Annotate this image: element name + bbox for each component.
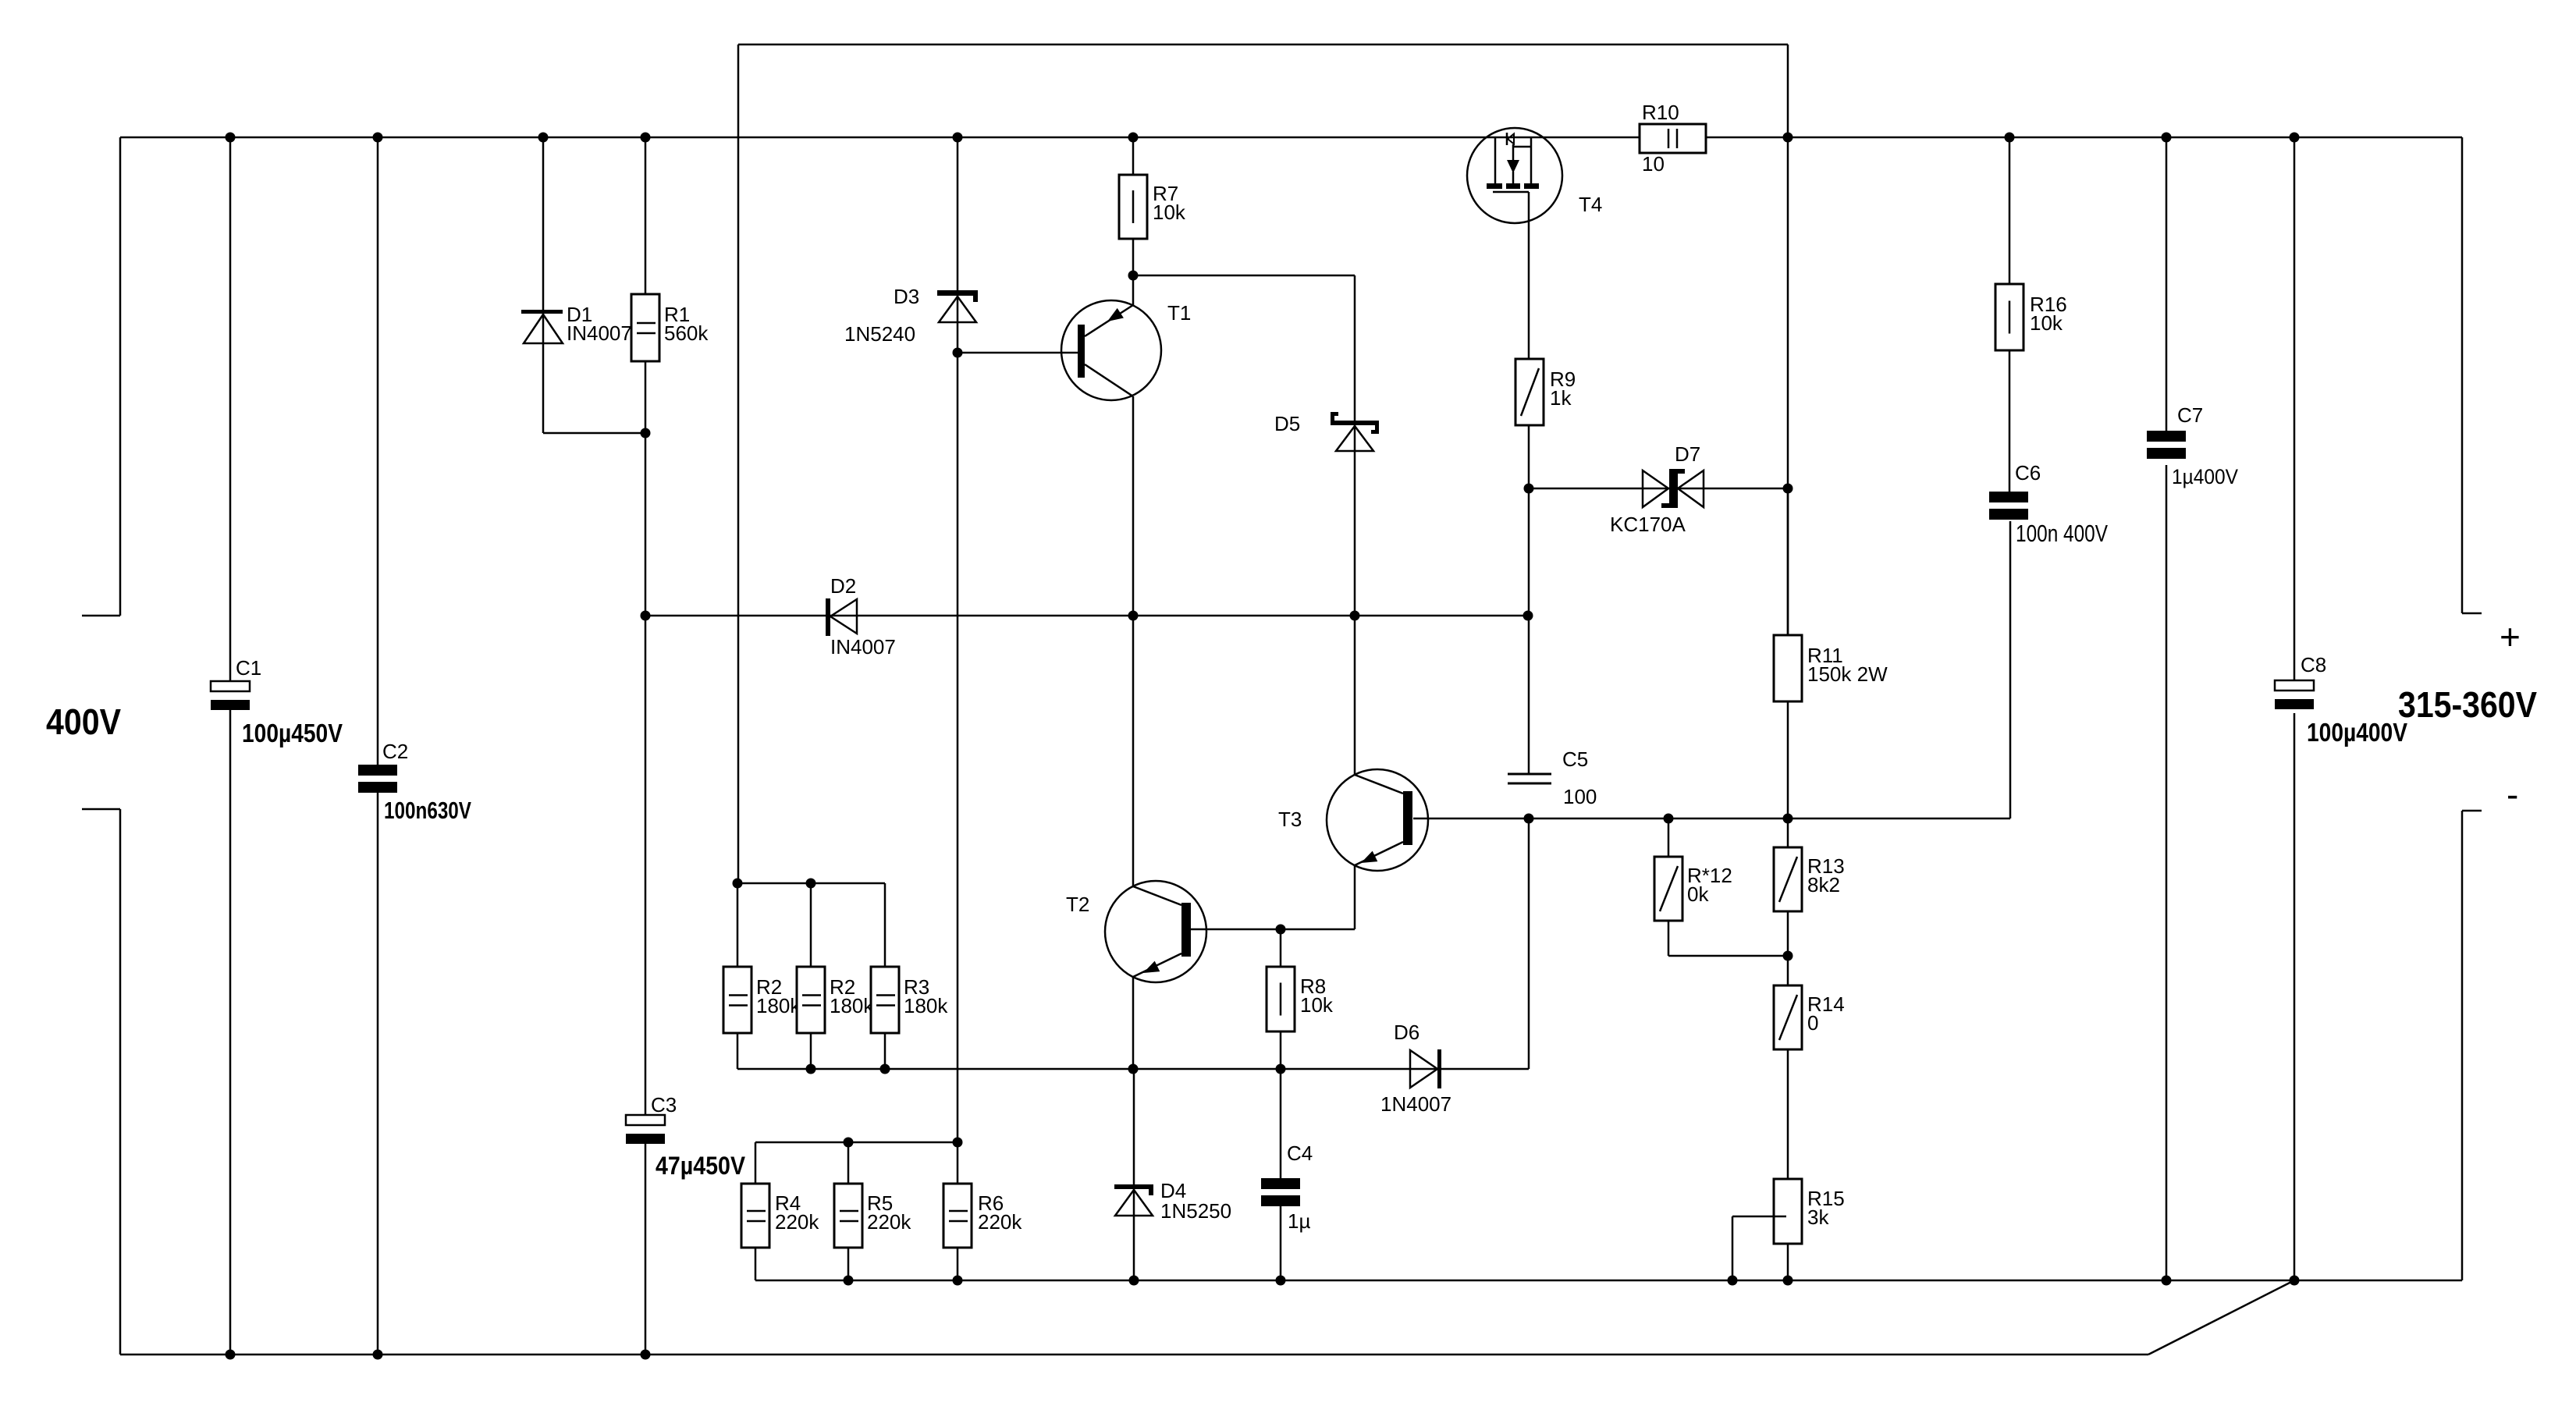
node C8 bottom diagonal: [2290, 1276, 2300, 1286]
svg-text:100n630V: 100n630V: [384, 797, 471, 824]
svg-text:560k: 560k: [664, 321, 709, 345]
capacitor C2 plates: [358, 765, 397, 793]
wire: R15 wiper down lead: [1732, 1216, 1734, 1280]
wire: R12 top lead: [1668, 818, 1670, 857]
wire: T1 base wire: [958, 352, 1078, 354]
capacitor C7 plates: [2147, 431, 2186, 459]
wire: C3 bottom lead: [645, 1142, 647, 1355]
resistor R4: [741, 1184, 769, 1248]
svg-text:T4: T4: [1579, 193, 1602, 216]
capacitor C4 plates: [1261, 1178, 1300, 1206]
wire: R5 bottom lead: [847, 1248, 850, 1280]
wire: +400V top bus: [120, 137, 2462, 139]
wire: C7 bottom lead: [2166, 465, 2168, 1280]
transistor T3: [1327, 769, 1428, 871]
node R5 top: [844, 1138, 854, 1148]
svg-text:10: 10: [1642, 152, 1665, 176]
zener D4 symbol: [1114, 1184, 1153, 1216]
wire: D4 column: [1133, 1069, 1135, 1280]
wire: R16 to C6 lead: [2009, 350, 2011, 492]
svg-text:1N4007: 1N4007: [1380, 1092, 1451, 1116]
diode D2: [826, 598, 857, 636]
svg-text:C7: C7: [2177, 403, 2203, 427]
resistor R15 (trimmer): [1774, 1179, 1802, 1244]
wire: feedback right vertical / D7-R11 column: [1787, 44, 1789, 635]
wire: R12 to R13 R14 node: [1668, 955, 1788, 957]
svg-text:100: 100: [1563, 785, 1597, 808]
node R2b bottom: [806, 1064, 816, 1074]
wire: right edge upper: [2461, 137, 2464, 613]
wire: C2 bottom lead: [377, 791, 379, 1355]
wire: D3 column to R6 bus: [957, 137, 959, 1142]
wire: T4 source stub: [1530, 137, 1533, 183]
zener D3 symbol: [937, 290, 978, 322]
wire: R7 bottom lead to T1 emitter: [1132, 239, 1135, 305]
node R16 top: [2005, 133, 2015, 143]
wire: C2 top lead: [377, 137, 379, 765]
capacitor C6 plates: [1989, 492, 2028, 520]
node D1 top: [538, 133, 549, 143]
wire: R9 bottom lead: [1528, 425, 1530, 488]
svg-text:C5: C5: [1562, 747, 1588, 771]
node C2 bottom: [373, 1350, 383, 1360]
svg-text:KC170A: KC170A: [1610, 513, 1686, 536]
wire: output - terminal stub: [2462, 810, 2482, 812]
node C7 top: [2162, 133, 2172, 143]
wire: T2 base to T3 emitter link: [1191, 928, 1355, 931]
node T2 emitter: [1128, 1064, 1139, 1074]
svg-text:1µ400V: 1µ400V: [2172, 465, 2238, 488]
wire: R3 bottom lead: [884, 1033, 886, 1069]
node D3 T1 base: [953, 348, 963, 358]
wire: R9 to C5 column: [1528, 488, 1530, 773]
svg-text:D6: D6: [1394, 1021, 1419, 1044]
svg-text:220k: 220k: [867, 1210, 911, 1234]
wire: feedback left vertical to R2 top bus: [737, 44, 740, 883]
wire: R5 top lead: [847, 1142, 850, 1184]
wire: bottom bus: [120, 1354, 2148, 1356]
svg-text:D7: D7: [1675, 442, 1700, 466]
wire: right edge lower: [2461, 811, 2464, 1280]
node R12 top: [1664, 814, 1674, 824]
wire: T2 emitter down lead: [1132, 977, 1135, 1069]
wire: R11 bottom to R13 top: [1787, 701, 1789, 847]
wire: bottom bus diagonal to lower bus: [2148, 1280, 2294, 1355]
svg-text:IN4007: IN4007: [567, 321, 632, 345]
resistor R2b: [797, 967, 825, 1033]
wire: T4 to R9 lead: [1528, 192, 1530, 359]
wire: R2 R3 top bus: [737, 882, 885, 885]
svg-text:3k: 3k: [1807, 1205, 1829, 1229]
svg-text:-: -: [2507, 774, 2518, 815]
node C1 bottom: [226, 1350, 236, 1360]
wire: R2a bottom lead: [737, 1033, 739, 1069]
wire: R4 top lead: [755, 1142, 757, 1184]
svg-text:220k: 220k: [775, 1210, 819, 1234]
wire: 400V - terminal stub: [82, 808, 120, 811]
resistor R7: [1119, 175, 1147, 239]
capacitor C3 plates: [626, 1115, 665, 1144]
svg-text:T1: T1: [1167, 301, 1191, 325]
wire: T3 emitter down lead: [1354, 865, 1356, 929]
node R7 top: [1128, 133, 1139, 143]
wire: R2b bottom lead: [810, 1033, 812, 1069]
wire: D2 node line: [645, 615, 1528, 617]
node C2 top: [373, 133, 383, 143]
node D3 top: [953, 133, 963, 143]
svg-text:180k: 180k: [756, 994, 801, 1017]
resistor R14: [1774, 985, 1802, 1049]
wire: C7 top lead: [2166, 137, 2168, 431]
node R6 bottom: [953, 1276, 963, 1286]
svg-text:8k2: 8k2: [1807, 873, 1840, 897]
node R8 bottom: [1276, 1064, 1286, 1074]
wire: T3 base node line: [1413, 818, 2010, 820]
node R15 wiper bottom: [1728, 1276, 1738, 1286]
svg-text:C3: C3: [651, 1093, 677, 1117]
wire: D5 column to T3 collector: [1354, 275, 1356, 775]
capacitor C1 plates: [211, 681, 250, 710]
node R15 bottom: [1783, 1276, 1793, 1286]
node D5 D2: [1350, 611, 1360, 621]
svg-text:D5: D5: [1274, 412, 1300, 435]
wire: R16 top lead: [2009, 137, 2011, 284]
transistor T2: [1105, 881, 1206, 982]
node D7 right: [1783, 484, 1793, 494]
wire: R15 bottom lead: [1787, 1244, 1789, 1280]
wire: R4 bottom lead: [755, 1248, 757, 1280]
node R2b top: [806, 879, 816, 889]
node R9 D7: [1524, 484, 1534, 494]
svg-text:D2: D2: [830, 574, 856, 598]
wire: C1 top lead: [229, 137, 232, 681]
resistor R1: [631, 294, 659, 361]
resistor R12: [1654, 857, 1682, 921]
diode D6: [1410, 1049, 1441, 1088]
wire: top feedback line: [738, 44, 1788, 46]
resistor R5: [834, 1184, 862, 1248]
svg-text:C8: C8: [2301, 653, 2326, 676]
node R2a top: [733, 879, 743, 889]
wire: R3 top lead: [884, 883, 886, 967]
node R8 top T2 base: [1276, 925, 1286, 935]
wire: lower node bus through D6: [737, 1068, 1529, 1070]
svg-text:C1: C1: [236, 656, 261, 680]
svg-text:10k: 10k: [2030, 311, 2063, 335]
wire: R2b top lead: [810, 883, 812, 967]
wire: R11 top lead: [1787, 488, 1789, 635]
wire: R7 top lead: [1132, 137, 1135, 175]
resistor R6: [943, 1184, 972, 1248]
wire: R1 top lead: [645, 137, 647, 294]
node D4 bottom: [1129, 1276, 1139, 1286]
wire: C1 bottom lead: [229, 710, 232, 1355]
node C1 top: [226, 133, 236, 143]
capacitor C8 plates: [2275, 680, 2314, 709]
svg-text:100µ400V: 100µ400V: [2307, 718, 2407, 747]
node R6 top: [953, 1138, 963, 1148]
node D1 R1 bottom: [641, 428, 651, 438]
node R5 bottom: [844, 1276, 854, 1286]
svg-text:C6: C6: [2015, 461, 2041, 485]
svg-text:400V: 400V: [46, 701, 121, 742]
svg-text:D3: D3: [894, 285, 919, 308]
wire: R8 bottom lead: [1280, 1031, 1282, 1069]
resistor R13: [1774, 847, 1802, 911]
wire: left edge upper: [119, 137, 122, 616]
wire: output minus bus: [755, 1280, 2462, 1282]
wire: D1 lead: [542, 137, 545, 433]
svg-text:47µ450V: 47µ450V: [656, 1152, 746, 1180]
svg-text:0k: 0k: [1687, 882, 1709, 906]
wire: 400V + terminal stub: [82, 615, 120, 617]
svg-text:100µ450V: 100µ450V: [242, 719, 343, 747]
svg-text:10k: 10k: [1300, 993, 1334, 1017]
wire: R12 bottom lead: [1668, 921, 1670, 956]
svg-text:180k: 180k: [904, 994, 948, 1017]
resistor R16: [1995, 284, 2023, 350]
svg-text:220k: 220k: [978, 1210, 1022, 1234]
wire: C8 bottom lead: [2294, 713, 2296, 1280]
node D2 left: [641, 611, 651, 621]
wire: R15 wiper horizontal: [1732, 1216, 1783, 1218]
wire: output + terminal stub: [2462, 612, 2482, 615]
diode D1: [521, 310, 563, 343]
wire: T4 drain stub: [1494, 137, 1497, 183]
node R11 bottom: [1783, 814, 1793, 824]
node R1 top: [641, 133, 651, 143]
svg-text:315-360V: 315-360V: [2398, 684, 2537, 725]
resistor R11: [1774, 635, 1802, 701]
R15 wiper interior: [1774, 1216, 1786, 1218]
resistor R9: [1515, 359, 1544, 425]
svg-text:0: 0: [1807, 1011, 1818, 1035]
wire: C5 bottom column: [1528, 818, 1530, 1069]
wire: C4 top lead: [1280, 1069, 1282, 1178]
svg-text:T3: T3: [1278, 808, 1302, 831]
resistor R8: [1267, 967, 1295, 1031]
resistor R10: [1640, 124, 1706, 153]
node C7 bottom: [2162, 1276, 2172, 1286]
node feedback right: [1783, 133, 1793, 143]
wire: T1 collector to T2 collector: [1132, 396, 1135, 886]
wire: C4 bottom lead: [1280, 1206, 1282, 1280]
MOSFET T4: [1467, 128, 1562, 223]
wire: R1 bottom / C3 top lead: [645, 361, 647, 1115]
capacitor C5: [1508, 774, 1551, 783]
node C5 T3 base: [1524, 814, 1534, 824]
wire: C6 bottom column: [2009, 521, 2012, 818]
wire: R14 bottom to R15 top: [1787, 1049, 1789, 1179]
bidirectional zener D7: [1643, 469, 1704, 508]
svg-text:1N5240: 1N5240: [844, 322, 915, 346]
node R13 R14: [1783, 951, 1793, 961]
node T1 collector D2: [1128, 611, 1139, 621]
svg-text:T2: T2: [1066, 893, 1089, 916]
svg-text:R10: R10: [1642, 101, 1679, 124]
node D2 right: [1523, 611, 1533, 621]
svg-text:150k 2W: 150k 2W: [1807, 662, 1888, 686]
svg-text:1k: 1k: [1550, 386, 1572, 410]
svg-text:C4: C4: [1287, 1141, 1313, 1165]
svg-text:180k: 180k: [830, 994, 874, 1017]
wire: R6 top lead: [957, 1142, 959, 1184]
svg-text:10k: 10k: [1153, 201, 1186, 224]
node R7 T1 emitter: [1128, 271, 1139, 281]
wire: D7 node line: [1529, 488, 1788, 490]
wire: D1-R1 bottom link: [543, 432, 645, 435]
wire: R2a top lead: [737, 883, 739, 967]
wire: T1 emitter node to D5: [1133, 275, 1355, 277]
wire: R6 bottom lead: [957, 1248, 959, 1280]
resistor R3: [871, 967, 899, 1033]
node C3 bottom: [641, 1350, 651, 1360]
zener diode D5: [1331, 412, 1379, 451]
svg-text:IN4007: IN4007: [830, 635, 896, 659]
svg-text:100n 400V: 100n 400V: [2016, 520, 2108, 547]
svg-text:+: +: [2500, 616, 2521, 657]
svg-text:1µ: 1µ: [1288, 1209, 1310, 1233]
wire: R13 bottom to R14 top: [1787, 911, 1789, 985]
svg-text:1N5250: 1N5250: [1160, 1199, 1231, 1223]
node R3 bottom: [880, 1064, 890, 1074]
node C4 bottom: [1276, 1276, 1286, 1286]
wire: C8 top lead: [2294, 137, 2296, 680]
wire: left edge lower: [119, 809, 122, 1355]
node C8 top: [2290, 133, 2300, 143]
wire: R4 R5 R6 top bus: [755, 1141, 958, 1144]
svg-text:C2: C2: [382, 740, 408, 763]
wire: R8 top lead: [1280, 929, 1282, 967]
transistor T1: [1061, 300, 1161, 400]
resistor R2a: [723, 967, 751, 1033]
